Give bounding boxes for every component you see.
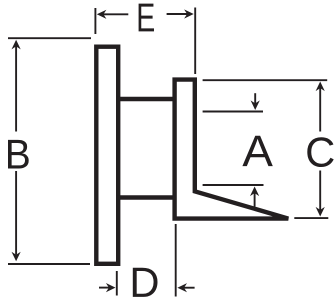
dim D left arrow shaft bbox=[99, 287, 110, 289]
label E bbox=[139, 4, 154, 32]
dim E left extension tick bbox=[94, 8, 96, 34]
dim C down arrowhead bbox=[316, 207, 325, 217]
dim C bottom extension line bbox=[294, 217, 328, 219]
dim E right extension tick bbox=[194, 8, 196, 75]
neck top line bbox=[117, 97, 176, 101]
dim D left arrowhead (points right) bbox=[106, 283, 116, 292]
label B bbox=[8, 140, 29, 169]
angle bracket (right wall + tapered shelf) bbox=[175, 80, 289, 219]
label D bbox=[133, 268, 158, 297]
dim B top extension line bbox=[8, 37, 91, 39]
label A bbox=[242, 136, 272, 166]
dim B bottom extension line bbox=[8, 263, 90, 265]
dim D right arrow shaft bbox=[183, 287, 195, 289]
label C bbox=[307, 137, 333, 167]
neck bottom line bbox=[117, 195, 176, 199]
dim E right arrow shaft bbox=[167, 13, 189, 15]
dim A up arrowhead bbox=[250, 187, 259, 197]
flange plate (left rectangle) bbox=[96, 47, 118, 264]
dim E left arrow shaft bbox=[102, 13, 128, 15]
dim C top extension line bbox=[203, 79, 328, 81]
dim D right extension tick bbox=[175, 224, 177, 297]
dim A up arrow shaft bbox=[254, 192, 256, 207]
dim C line upper segment bbox=[319, 87, 321, 132]
dim C line lower segment bbox=[319, 171, 321, 212]
dim B down arrowhead bbox=[12, 252, 21, 262]
dim A down arrowhead bbox=[251, 100, 260, 110]
dim D right arrowhead (points left) bbox=[177, 283, 187, 292]
dim B up arrowhead bbox=[12, 40, 21, 50]
dim A bottom extension line bbox=[203, 184, 264, 186]
dim E left arrowhead bbox=[97, 10, 107, 19]
dim D left extension tick bbox=[116, 271, 118, 296]
dim A top extension line bbox=[203, 111, 263, 113]
dim A down arrow shaft bbox=[254, 93, 256, 105]
dim B line upper segment bbox=[15, 44, 17, 132]
dim E right arrowhead bbox=[184, 9, 194, 18]
dim C up arrowhead bbox=[316, 82, 325, 92]
dim B line lower segment bbox=[15, 171, 17, 255]
